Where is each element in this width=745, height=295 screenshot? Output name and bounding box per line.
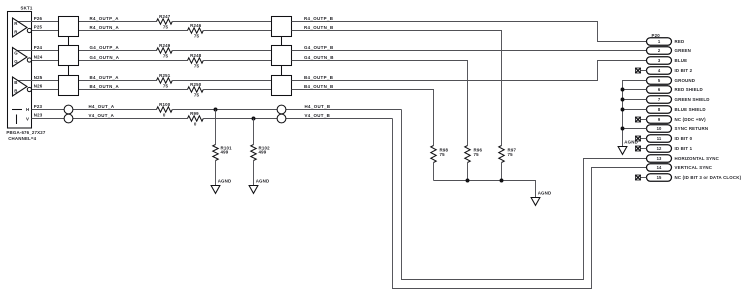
wire R4_OUTN_A [79,30,188,32]
resistor R98 75 ohm [431,146,436,163]
connector P20 pin 4 (ID BIT 2) [647,67,693,75]
ground AGND [211,186,220,194]
wire block stub col2 R-G [281,37,283,46]
wire V4_OUT_B horizontal [203,118,392,120]
resistor R99 0 ohm (vsync) [188,116,204,121]
svg-text:75: 75 [194,64,200,69]
svg-text:R100: R100 [159,102,171,107]
svg-text:N24: N24 [34,55,43,60]
svg-text:R247: R247 [159,14,171,19]
wire N24 [32,60,59,62]
svg-text:P24: P24 [34,45,43,50]
svg-text:HORIZONTAL SYNC: HORIZONTAL SYNC [675,156,720,161]
svg-text:H: H [26,107,29,112]
buffer green channel output driver [13,48,28,67]
svg-text:H4_OUT_A: H4_OUT_A [89,104,115,109]
svg-text:N25: N25 [34,75,43,80]
wire P25 bubble to block [32,30,59,32]
no-connect X on pin 4 [635,68,646,73]
no-connect X on pin 12 [635,146,646,151]
filter block col1 R [59,17,79,37]
junction rail R96 [466,179,470,183]
svg-text:R251: R251 [159,73,171,78]
wire B4_OUTP_B to pin 3 BLUE [292,61,647,81]
wire G4_OUTP_A [79,50,157,52]
svg-text:B4_OUTN_B: B4_OUTN_B [304,84,334,89]
svg-text:BLUE SHIELD: BLUE SHIELD [675,107,706,112]
svg-text:AGND: AGND [256,178,270,183]
svg-text:G: G [14,51,18,56]
svg-text:B4_OUTN_A: B4_OUTN_A [90,84,120,89]
resistor R249 75 ohm (green P) [157,48,173,53]
wire pin 10 SYNC RETURN to bus [623,128,647,130]
connector P20 pin 10 (SYNC RETURN) [647,125,709,133]
wire R96 bottom lead [467,163,469,181]
junction V to R102 [252,117,256,121]
svg-text:13: 13 [657,156,662,161]
connector P20 pin 11 (ID BIT 0) [647,135,693,143]
svg-text:75: 75 [194,93,200,98]
no-connect X on pin 9 [635,117,646,122]
svg-text:75: 75 [474,152,480,157]
svg-text:V: V [26,117,29,122]
wire G4_OUTN_B to R96 [292,61,468,146]
svg-text:R248: R248 [190,53,202,58]
junction bus pin10 [621,127,625,131]
svg-text:P26: P26 [34,16,43,21]
connector P20 pin 15 (NC (ID BIT 3 or DATA CLOCK)) [647,174,742,182]
svg-text:G4_OUTP_A: G4_OUTP_A [90,45,120,50]
svg-text:RED SHIELD: RED SHIELD [675,87,703,92]
resistor R247 75 ohm (red P) [157,19,173,24]
svg-text:G4_OUTP_B: G4_OUTP_B [304,45,334,50]
wire N26 [32,89,59,91]
ground AGND [618,147,627,155]
svg-text:AGND: AGND [218,178,232,183]
svg-text:SKT1: SKT1 [21,6,33,11]
wire R4_OUTN_B to R97 [292,31,502,146]
wire G4_OUTP_A cont [172,50,271,52]
connector P20 pin 6 (RED SHIELD) [647,86,703,94]
svg-text:R249: R249 [159,43,171,48]
svg-text:0: 0 [163,113,166,118]
junction bus pin7 [621,98,625,102]
resistor R96 75 ohm [465,146,470,163]
svg-text:75: 75 [163,25,169,30]
wire block stub col1 G-B [68,66,70,76]
junction bus pin8 [621,108,625,112]
wire B4_OUTN_A [79,89,188,91]
bead circle V right [277,114,286,123]
wire termination ground rail [434,181,536,198]
horizontal sync symbol in SKT1 [12,109,22,111]
junction H to R101 [214,108,218,112]
svg-text:12: 12 [657,146,662,151]
svg-text:AGND: AGND [538,190,552,195]
svg-text:PBGA-676_27X27: PBGA-676_27X27 [6,130,46,135]
resistor R251 75 ohm (blue P) [157,78,173,83]
svg-text:P23: P23 [34,104,43,109]
wire P26 buffer to block [18,21,59,23]
bead circle H right [277,105,286,114]
resistor R246 75 ohm (red N) [188,28,204,33]
ground AGND [249,186,258,194]
connector P20 pin 12 (ID BIT 1) [647,145,693,153]
svg-text:V4_OUT_B: V4_OUT_B [305,113,331,118]
connector P20 pin 3 (BLUE) [647,57,688,65]
wire R4_OUTN_A cont [203,30,271,32]
svg-text:R246: R246 [190,23,202,28]
filter block col2 B [272,76,292,96]
wire G4_OUTN_A cont [203,60,271,62]
resistor R97 75 ohm [499,146,504,163]
svg-text:R4_OUTN_A: R4_OUTN_A [90,25,120,30]
svg-text:G4_OUTN_A: G4_OUTN_A [90,55,120,60]
wire block stub col2 G-B [281,66,283,76]
wire P24 [18,50,59,52]
connector P20 pin 14 (VERTICAL SYNC) [647,164,713,172]
connector P20 pin 9 (NC (DDC +5V)) [647,116,707,124]
svg-text:11: 11 [657,136,662,141]
wire pin 7 GREEN SHIELD to bus [623,99,647,101]
junction bus pin6 [621,88,625,92]
connector P20 pin 2 (GREEN) [647,47,692,55]
svg-text:V4_OUT_A: V4_OUT_A [89,113,115,118]
svg-text:R4_OUTP_A: R4_OUTP_A [90,16,120,21]
wire R102 bottom lead [253,161,255,186]
svg-text:499: 499 [259,150,267,155]
inverting output bubble green channel [27,58,31,62]
wire B4_OUTP_A [79,80,157,82]
svg-text:GREEN: GREEN [675,48,692,53]
svg-text:GREEN SHIELD: GREEN SHIELD [675,97,710,102]
no-connect X on pin 11 [635,136,646,141]
svg-text:75: 75 [163,84,169,89]
wire pin 8 BLUE SHIELD to bus [623,109,647,111]
inverting output bubble blue channel [27,87,31,91]
svg-text:BLUE: BLUE [675,58,688,63]
svg-text:N26: N26 [34,84,43,89]
svg-text:ID BIT 0: ID BIT 0 [675,136,693,141]
buffer blue channel output driver [13,77,28,96]
svg-text:R4_OUTN_B: R4_OUTN_B [304,25,334,30]
wire block stub col1 R-G [68,37,70,46]
wire R97 bottom lead [501,163,503,181]
wire B4_OUTN_B to R98 [292,90,434,146]
filter block col2 R [272,17,292,37]
wire P23 / H4_OUT_A [32,109,157,111]
connector P20 pin 5 (GROUND) [647,77,696,85]
svg-text:R4_OUTP_B: R4_OUTP_B [304,16,333,21]
connector P20 pin 7 (GREEN SHIELD) [647,96,710,104]
wire V4_OUT_B to pin 14 [393,119,647,289]
svg-text:P25: P25 [34,25,43,30]
svg-text:NC (DDC +5V): NC (DDC +5V) [675,117,707,122]
svg-text:75: 75 [163,54,169,59]
svg-text:R250: R250 [190,82,202,87]
svg-text:B4_OUTP_B: B4_OUTP_B [304,75,333,80]
svg-text:ID BIT 1: ID BIT 1 [675,146,693,151]
svg-text:R99: R99 [190,111,199,116]
resistor R102 499 ohm [251,145,256,161]
svg-text:SYNC RETURN: SYNC RETURN [675,126,709,131]
wire N25 [18,80,59,82]
svg-text:15: 15 [657,175,662,180]
wire B4_OUTN_A cont [203,89,271,91]
svg-text:N23: N23 [34,113,43,118]
wire H4_OUT_B horizontal [172,109,401,111]
wire R102 top lead [253,119,255,145]
inverting output bubble red channel [27,28,31,32]
svg-text:75: 75 [508,152,514,157]
wire R98 bottom lead [433,163,435,181]
wire R4_OUTP_B to pin 1 RED [292,22,647,42]
connector P20 pin 1 (RED) [647,38,685,46]
svg-text:NC (ID BIT 3 or DATA CLOCK): NC (ID BIT 3 or DATA CLOCK) [675,175,742,180]
buffer red channel output driver [13,18,28,37]
bead circle H left [64,105,73,114]
svg-text:CHANNEL=4: CHANNEL=4 [8,136,36,141]
wire G4_OUTP_B to pin 2 GREEN [292,50,647,52]
no-connect X on pin 15 [635,175,646,180]
wire pin 6 RED SHIELD to bus [623,89,647,91]
bead circle V left [64,114,73,123]
wire B4_OUTP_A cont [172,80,271,82]
wire R101 bottom lead [215,161,217,186]
svg-text:ID BIT 2: ID BIT 2 [675,68,693,73]
svg-text:10: 10 [657,126,662,131]
svg-text:G: G [14,59,18,64]
wire R101 top lead [215,110,217,145]
svg-text:H4_OUT_B: H4_OUT_B [305,104,331,109]
svg-text:B4_OUTP_A: B4_OUTP_A [90,75,120,80]
svg-text:14: 14 [657,165,662,170]
filter block col1 B [59,76,79,96]
wire N23 / V4_OUT_A [32,118,188,120]
svg-text:GROUND: GROUND [675,78,696,83]
svg-text:G4_OUTN_B: G4_OUTN_B [304,55,334,60]
svg-text:75: 75 [194,34,200,39]
connector P20 pin 13 (HORIZONTAL SYNC) [647,155,720,163]
wire ground bus from pin 5 [623,81,647,147]
wire R4_OUTP_A [79,21,157,23]
ground AGND [531,198,540,206]
svg-text:0: 0 [194,122,197,127]
svg-text:B: B [14,80,17,85]
filter block col1 G [59,46,79,66]
junction rail R97 [500,179,504,183]
svg-text:B: B [14,88,17,93]
connector SKT1 FPGA body [8,12,32,129]
wire R4_OUTP_A cont [172,21,271,23]
resistor R248 75 ohm (green N) [188,58,204,63]
vertical sync symbol in SKT1 [16,115,18,125]
svg-text:VERTICAL SYNC: VERTICAL SYNC [675,165,713,170]
resistor R250 75 ohm (blue N) [188,87,204,92]
resistor R100 0 ohm (hsync) [157,107,173,112]
wire G4_OUTN_A [79,60,188,62]
connector P20 pin 8 (BLUE SHIELD) [647,106,706,114]
svg-text:499: 499 [221,150,229,155]
svg-text:RED: RED [675,39,685,44]
resistor R101 499 ohm [213,145,218,161]
filter block col2 G [272,46,292,66]
wire H4_OUT_B to pin 13 [402,110,647,280]
svg-text:75: 75 [440,152,446,157]
